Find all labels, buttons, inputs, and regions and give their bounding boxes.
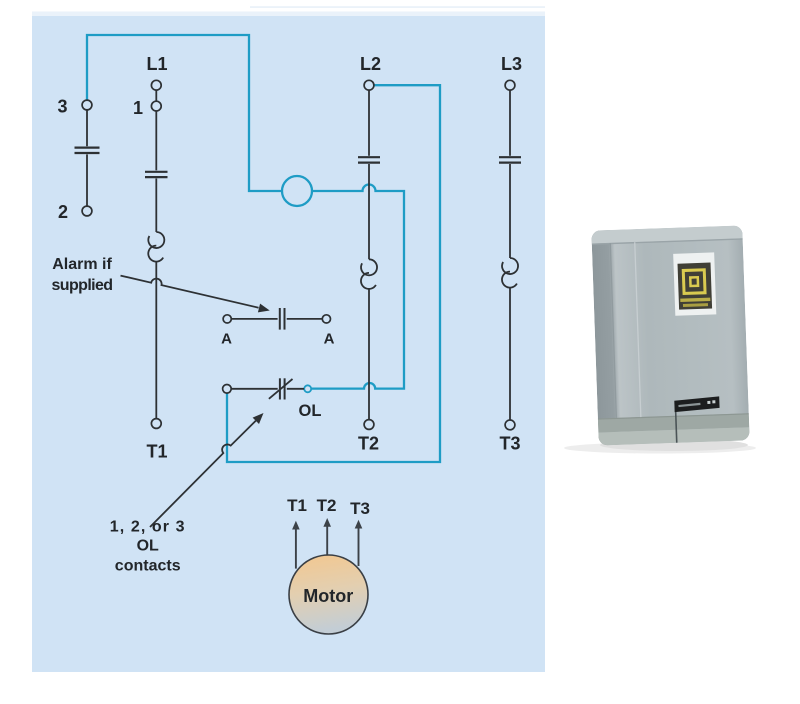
svg-text:supplied: supplied <box>52 277 113 294</box>
svg-text:contacts: contacts <box>115 558 181 575</box>
svg-text:OL: OL <box>299 402 322 420</box>
svg-text:1: 1 <box>133 98 143 118</box>
svg-text:A: A <box>221 331 232 348</box>
svg-text:T1: T1 <box>146 442 167 462</box>
svg-text:T1: T1 <box>287 496 307 515</box>
svg-text:L3: L3 <box>501 54 522 74</box>
svg-text:OL: OL <box>137 538 159 555</box>
svg-text:L2: L2 <box>360 54 381 74</box>
svg-text:1, 2, or 3: 1, 2, or 3 <box>110 519 186 536</box>
svg-text:Motor: Motor <box>303 586 353 606</box>
svg-text:T3: T3 <box>350 499 370 518</box>
svg-text:2: 2 <box>58 202 68 222</box>
svg-text:Alarm if: Alarm if <box>52 256 112 273</box>
svg-text:L1: L1 <box>146 54 167 74</box>
svg-text:T2: T2 <box>317 496 337 515</box>
svg-text:T2: T2 <box>358 434 379 454</box>
svg-text:3: 3 <box>57 97 67 117</box>
svg-text:A: A <box>324 331 335 348</box>
svg-text:T3: T3 <box>499 434 520 454</box>
